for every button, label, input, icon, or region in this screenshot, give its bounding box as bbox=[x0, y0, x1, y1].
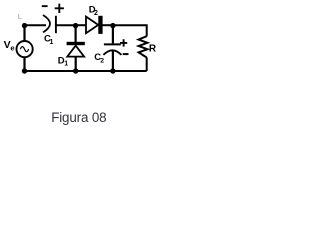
svg-text:R: R bbox=[149, 44, 157, 55]
node B junction dot bbox=[73, 23, 78, 28]
wire node A to C1 bbox=[25, 24, 47, 26]
capacitor C1 minus sign bbox=[42, 5, 48, 7]
wire source bottom to bottom rail bbox=[23, 57, 25, 71]
junction dot C2/bottom rail bbox=[110, 68, 115, 73]
capacitor C2 straight plate bbox=[104, 43, 121, 45]
source Ve circle bbox=[17, 41, 33, 57]
capacitor C2 curved plate bbox=[103, 50, 121, 55]
wire node B to D2 bbox=[76, 24, 87, 26]
node A (top-left junction dot) bbox=[22, 23, 27, 28]
svg-text:2: 2 bbox=[94, 10, 98, 17]
svg-text:Figura 08: Figura 08 bbox=[51, 110, 106, 125]
svg-text:2: 2 bbox=[100, 57, 104, 64]
bottom-left junction dot bbox=[22, 68, 27, 73]
source sine wave bbox=[20, 47, 28, 52]
svg-text:L: L bbox=[18, 14, 22, 21]
wire node B down to D1 bbox=[74, 25, 76, 43]
svg-text:1: 1 bbox=[64, 61, 68, 68]
wire C1 to node B bbox=[56, 24, 76, 26]
diode D1 triangle bbox=[67, 46, 84, 57]
diode D1 cathode bar bbox=[67, 42, 85, 45]
bottom rail bbox=[25, 70, 147, 72]
wire node C to top-right corner and down bbox=[113, 25, 147, 36]
node C junction dot bbox=[110, 23, 115, 28]
svg-text:e: e bbox=[10, 43, 14, 52]
wire D1 anode to bottom rail bbox=[75, 57, 77, 71]
capacitor C1 straight plate bbox=[55, 16, 57, 33]
wire resistor bottom to bottom rail corner bbox=[146, 57, 148, 71]
diode D2 cathode bar bbox=[98, 16, 102, 34]
resistor R zigzag bbox=[139, 36, 148, 57]
wire C2 to bottom rail bbox=[112, 51, 114, 72]
wire D2 to node C bbox=[102, 24, 113, 26]
capacitor C1 plus sign bbox=[55, 4, 64, 13]
junction dot D1/bottom rail bbox=[73, 68, 78, 73]
diode D2 triangle bbox=[86, 17, 98, 34]
capacitor C1 curved plate bbox=[43, 15, 50, 32]
capacitor C2 plus sign bbox=[120, 39, 127, 46]
capacitor C2 minus sign bbox=[123, 53, 129, 55]
wire node A down to source bbox=[23, 25, 25, 41]
wire node C down to C2 bbox=[112, 25, 114, 43]
svg-text:1: 1 bbox=[50, 39, 54, 46]
